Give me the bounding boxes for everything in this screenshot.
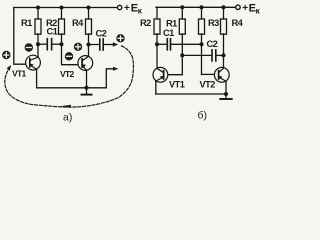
polarity mark - at VT2 base: [65, 52, 73, 60]
terminal +Ek of circuit a: [117, 5, 121, 9]
ground symbol of circuit a: [86, 88, 88, 94]
wire: left feedback/input wire down to VT1 base: [14, 8, 27, 65]
svg-text:C1: C1: [47, 27, 58, 37]
svg-text:VT2: VT2: [200, 80, 216, 90]
node: dot VT2 base / C1 right: [59, 42, 63, 46]
wire: VT2 collector wire: [88, 45, 90, 57]
resistor R1: [37, 8, 39, 20]
node: dot ground junction b: [224, 92, 228, 96]
label +Ek of circuit a: [124, 2, 143, 15]
polarity mark + at VT2 collector: [74, 43, 82, 51]
capacitor C2 of circuit a: [89, 44, 100, 46]
arrow: dashed loop arrowhead at bottom: [60, 105, 71, 108]
ground symbol of circuit b: [225, 94, 227, 99]
node: dot C1 right on R3 wire: [199, 42, 203, 46]
wire: bottom common rail of circuit a: [37, 69, 115, 88]
node: rail dot R4 b: [221, 5, 225, 9]
svg-text:к: к: [256, 5, 261, 15]
svg-text:R1: R1: [21, 18, 32, 28]
polarity mark + at output: [116, 34, 124, 42]
svg-text:VT1: VT1: [169, 80, 185, 90]
node: dot C2 right on R4 wire: [221, 53, 225, 57]
wire: top supply rail of circuit b: [156, 6, 236, 8]
transistor VT2 (PNP) of circuit b: [214, 67, 229, 82]
node: rail dot R1 b: [180, 5, 184, 9]
resistor R2: [61, 8, 63, 20]
svg-text:R4: R4: [72, 18, 84, 28]
node: rail dot R2: [59, 5, 63, 9]
wire: VT1 base wire of circuit b: [167, 74, 183, 76]
svg-text:б): б): [198, 110, 208, 122]
wire: VT2 base wire of circuit b: [202, 73, 216, 75]
node: rail dot R1: [36, 5, 40, 9]
svg-text:R4: R4: [232, 18, 244, 28]
node: rail dot R3 b: [199, 5, 203, 9]
capacitor C1 of circuit b: [157, 43, 167, 45]
capacitor C1 of circuit a: [38, 43, 47, 45]
arrow: output tap arrow (bottom): [113, 67, 118, 71]
transistor VT1 (PNP) of circuit a: [26, 55, 41, 70]
resistor R3 of circuit b: [201, 7, 203, 19]
wire: VT1 emitter down to bottom rail: [36, 69, 38, 88]
node: dot C2 left on R1 wire: [180, 53, 184, 57]
terminal +Ek of circuit b: [236, 5, 240, 9]
arrow: dashed loop arrowhead at VT1 base: [7, 65, 11, 71]
svg-text:+: +: [242, 3, 248, 14]
svg-text:+: +: [124, 3, 130, 14]
resistor R2 of circuit b: [156, 7, 158, 19]
svg-text:к: к: [138, 5, 143, 15]
svg-text:а): а): [63, 112, 72, 124]
resistor R4: [88, 8, 90, 20]
label +Ek of circuit b: [242, 2, 260, 15]
svg-text:R1: R1: [166, 19, 177, 29]
wire: VT2 base wire from C1 node: [62, 44, 79, 64]
wire: bottom common rail of circuit b: [156, 93, 226, 95]
polarity mark - at VT1 collector: [25, 43, 33, 51]
node: rail dot R4: [86, 5, 90, 9]
resistor R4 of circuit b: [223, 7, 225, 19]
svg-text:C2: C2: [96, 29, 107, 39]
svg-text:C2: C2: [207, 39, 218, 49]
wire: VT2 emitter to bottom rail b: [225, 81, 227, 94]
transistor VT1 (PNP, mirrored) of circuit b: [153, 67, 168, 82]
svg-text:VT2: VT2: [60, 69, 74, 79]
svg-text:C1: C1: [163, 28, 174, 38]
node: dot VT2 collector / C2 left: [86, 42, 90, 46]
arrow: output arrow after C2: [113, 42, 118, 46]
svg-text:R2: R2: [140, 18, 151, 28]
svg-text:R3: R3: [208, 18, 219, 28]
node: dot ground junction a: [84, 86, 88, 90]
capacitor C2 of circuit b: [182, 54, 212, 56]
node: dot VT1 collector / C1 left: [36, 42, 40, 46]
wire: VT1 emitter to bottom rail b: [155, 81, 157, 94]
transistor VT2 (PNP) of circuit a: [78, 56, 93, 71]
wire: top supply rail of circuit a: [14, 7, 118, 9]
polarity mark + at VT1 base input: [2, 51, 10, 59]
wire: VT2 emitter down to rail: [86, 70, 88, 88]
svg-text:VT1: VT1: [12, 69, 26, 79]
node: dot C1 left on R2 wire: [155, 42, 159, 46]
resistor R1 of circuit b: [181, 7, 183, 19]
wire: VT1 collector wire: [37, 44, 39, 57]
dashed feedback loop of circuit a: [5, 46, 134, 107]
